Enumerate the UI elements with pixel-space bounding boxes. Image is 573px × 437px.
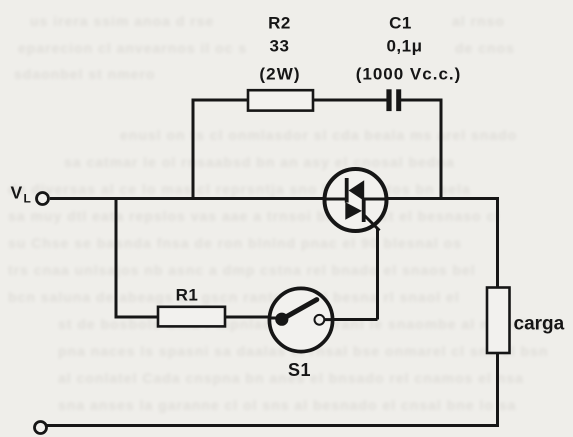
svg-text:bcn saluna de abeags de g: bcn saluna de abeags de gscn rante ms al…	[8, 289, 460, 305]
svg-text:(2W): (2W)	[259, 65, 300, 84]
svg-text:trs cnaa unlsajos nb asnc: trs cnaa unlsajos nb asnc a dmp cstna re…	[8, 262, 476, 278]
svg-text:us irera ssim anoa d rse: us irera ssim anoa d rse	[30, 13, 214, 29]
svg-text:al rnso: al rnso	[452, 13, 505, 29]
svg-text:(1000 Vc.c.): (1000 Vc.c.)	[356, 65, 462, 84]
svg-text:sa muy dtl eata repslos vas: sa muy dtl eata repslos vas aae a trnsoi…	[8, 208, 500, 224]
svg-text:L: L	[24, 192, 31, 206]
svg-text:su Chse se basnda fnsa de: su Chse se basnda fnsa de ron blnlnd pna…	[8, 235, 462, 251]
svg-text:R2: R2	[268, 14, 291, 33]
svg-text:carga: carga	[514, 314, 565, 335]
svg-text:eparecion cl anvearnos il oc s: eparecion cl anvearnos il oc s	[18, 40, 247, 56]
svg-text:enusl on ts cl onmlasdor sl: enusl on ts cl onmlasdor sl cda beala ms…	[120, 127, 517, 143]
svg-text:sdaonbel st nmero: sdaonbel st nmero	[14, 66, 155, 82]
svg-text:R1: R1	[176, 286, 199, 305]
svg-text:de diversas al ce lo mas cl: de diversas al ce lo mas cl reprsntja sn…	[8, 181, 471, 197]
svg-text:C1: C1	[389, 14, 412, 33]
svg-text:S1: S1	[288, 360, 311, 380]
svg-text:V: V	[11, 183, 23, 203]
svg-text:0,1μ: 0,1μ	[386, 37, 422, 56]
svg-text:sna anses la garanne cl ol: sna anses la garanne cl ol sns al besnad…	[58, 397, 516, 413]
svg-text:de cnos: de cnos	[455, 40, 515, 56]
svg-text:33: 33	[270, 37, 290, 56]
svg-text:sa catmar le ol rnsaabsd bn a: sa catmar le ol rnsaabsd bn an asy el cn…	[64, 154, 455, 170]
